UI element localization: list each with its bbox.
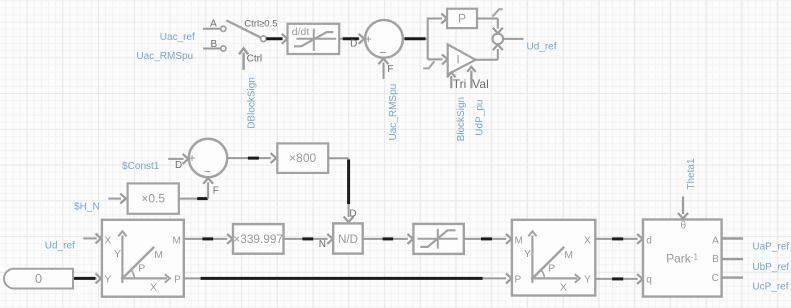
svg-text:Ctrl: Ctrl — [247, 54, 263, 65]
svg-text:A: A — [210, 18, 217, 29]
svg-text:D: D — [349, 208, 356, 219]
svg-text:DBlockSign: DBlockSign — [247, 77, 258, 129]
svg-text:Ud_ref: Ud_ref — [45, 240, 75, 251]
svg-text:Ud_ref: Ud_ref — [527, 41, 557, 52]
svg-text:F: F — [213, 185, 219, 196]
svg-text:P: P — [548, 262, 555, 274]
svg-text:×0.5: ×0.5 — [141, 192, 165, 206]
svg-text:P: P — [174, 275, 181, 286]
svg-text:UbP_ref: UbP_ref — [752, 262, 789, 273]
svg-text:B: B — [210, 39, 217, 50]
svg-text:θ: θ — [681, 221, 687, 232]
svg-text:−: − — [204, 165, 211, 179]
svg-text:A: A — [712, 235, 719, 246]
svg-text:M: M — [564, 249, 573, 261]
svg-text:X: X — [560, 281, 567, 293]
svg-text:d/dt: d/dt — [292, 26, 310, 38]
svg-text:Val: Val — [472, 77, 488, 91]
svg-text:×339.997: ×339.997 — [233, 232, 283, 246]
svg-text:Ctrl≥0.5: Ctrl≥0.5 — [244, 19, 277, 30]
svg-text:$Const1: $Const1 — [122, 161, 160, 172]
svg-text:+: + — [188, 151, 195, 165]
svg-text:×800: ×800 — [289, 151, 316, 165]
svg-text:−: − — [379, 46, 386, 60]
svg-text:C: C — [712, 273, 719, 284]
svg-text:Y: Y — [105, 275, 112, 286]
svg-text:0: 0 — [35, 271, 42, 286]
svg-text:F: F — [387, 64, 393, 75]
svg-text:UdP_pu: UdP_pu — [475, 100, 486, 136]
svg-text:M: M — [515, 236, 523, 247]
svg-text:D: D — [175, 160, 182, 171]
svg-text:P: P — [458, 12, 466, 26]
svg-text:Y: Y — [524, 248, 531, 260]
svg-text:N/D: N/D — [338, 234, 358, 246]
svg-text:+: + — [365, 32, 372, 46]
svg-text:Y: Y — [584, 275, 591, 286]
svg-text:P: P — [515, 275, 522, 286]
svg-text:$H_N: $H_N — [74, 201, 100, 212]
svg-text:I: I — [456, 53, 459, 67]
svg-text:X: X — [150, 281, 157, 293]
svg-text:Uac_ref: Uac_ref — [160, 32, 195, 43]
svg-text:d: d — [646, 235, 652, 246]
svg-text:P: P — [138, 262, 145, 274]
svg-text:Uac_RMSpu: Uac_RMSpu — [388, 84, 399, 141]
svg-text:Tri: Tri — [453, 77, 467, 91]
svg-text:M: M — [154, 249, 163, 261]
svg-text:Y: Y — [114, 248, 121, 260]
svg-text:N: N — [319, 239, 326, 250]
svg-text:Uac_RMSpu: Uac_RMSpu — [136, 51, 193, 62]
svg-text:X: X — [584, 236, 591, 247]
svg-text:D: D — [350, 39, 357, 50]
svg-text:Theta1: Theta1 — [686, 158, 697, 190]
svg-text:UaP_ref: UaP_ref — [752, 242, 789, 253]
svg-text:UcP_ref: UcP_ref — [752, 282, 788, 293]
svg-text:B: B — [712, 254, 719, 265]
svg-text:X: X — [105, 236, 112, 247]
svg-text:q: q — [646, 274, 652, 285]
svg-text:M: M — [172, 236, 180, 247]
svg-text:BlockSign: BlockSign — [456, 97, 467, 141]
